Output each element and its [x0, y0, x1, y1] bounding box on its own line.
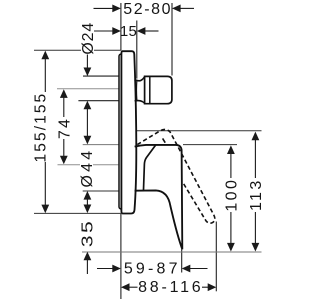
- wire: 100 top extension: [183, 144, 237, 146]
- dimension 35: [78, 219, 96, 274]
- wire: wall extension line bottom: [120, 214, 122, 299]
- wire: bottom tip extension line: [82, 251, 262, 253]
- wire: plate top extension: [34, 49, 121, 51]
- knob body: [145, 76, 172, 103]
- svg-text:74: 74: [56, 117, 73, 139]
- svg-text:113: 113: [248, 178, 265, 211]
- wire: sleeve bottom extension: [83, 190, 135, 192]
- dimension 155/155: [33, 51, 50, 214]
- dimension 59-87: [97, 261, 208, 278]
- svg-text:35: 35: [78, 219, 96, 247]
- wire: dashed-handle tip extension: [215, 222, 217, 292]
- svg-text:59-87: 59-87: [124, 261, 181, 278]
- escutcheon plate: [121, 51, 136, 213]
- lever front-left edge: [144, 145, 156, 190]
- svg-text:15: 15: [120, 23, 137, 40]
- lever handle closed: [135, 145, 183, 249]
- wire: knob bottom extension: [78, 100, 120, 102]
- wire: wall extension line top: [120, 3, 122, 51]
- dimension 52-80: [94, 1, 195, 18]
- dimension 113: [248, 132, 265, 252]
- knob flange line: [149, 76, 151, 103]
- svg-text:Ø24: Ø24: [80, 22, 97, 55]
- wire: plate bottom extension: [34, 212, 121, 214]
- wire: sleeve top extension left: [83, 144, 135, 146]
- dimension 74: [56, 89, 73, 164]
- svg-text:88-116: 88-116: [138, 279, 203, 296]
- dimension 15: [94, 23, 159, 40]
- wire: knob front face extension: [171, 3, 173, 76]
- knob neck top: [135, 77, 145, 81]
- wire: knob axis line: [57, 88, 120, 90]
- knob neck rim: [136, 80, 138, 100]
- dimension Ø44: [79, 148, 96, 213]
- wire: 74 bottom reference line: [58, 164, 119, 166]
- flange strip behind plate: [119, 54, 124, 209]
- svg-text:100: 100: [223, 178, 240, 212]
- dimension Ø24: [80, 22, 97, 144]
- wire: knob top extension: [83, 75, 120, 77]
- svg-text:155/155: 155/155: [33, 92, 50, 163]
- dashed handle open position: [137, 129, 215, 223]
- wire: 113 top extension: [135, 130, 262, 132]
- wire: knob rear face extension: [136, 21, 138, 79]
- dashed handle inner edge stub: [163, 138, 167, 144]
- svg-text:52-80: 52-80: [123, 1, 172, 18]
- svg-text:Ø44: Ø44: [79, 148, 96, 188]
- knob neck bottom: [135, 101, 145, 103]
- dimension 100: [223, 145, 240, 251]
- dimension 88-116: [121, 279, 216, 296]
- wire: lever tip extension: [181, 249, 183, 272]
